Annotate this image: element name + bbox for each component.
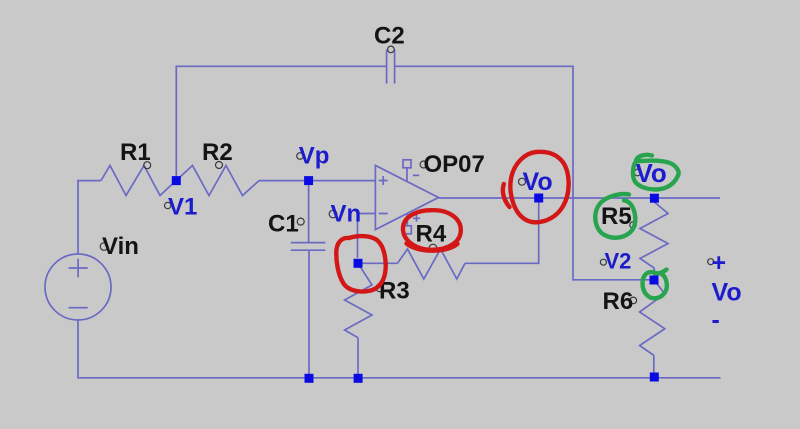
wire: V1 up and over to C2 [176, 66, 386, 180]
svg-text:Vin: Vin [102, 233, 139, 260]
node gnd C1 [305, 374, 314, 383]
svg-text:R1: R1 [120, 139, 151, 166]
svg-text:+: + [712, 249, 727, 277]
node V2 [650, 276, 659, 285]
green circle around R5 [595, 194, 635, 238]
wire: Vin top to R1 [78, 181, 101, 254]
junction nodes [172, 176, 659, 383]
op-amp power pin top [403, 160, 411, 168]
resistor R1 [101, 166, 176, 196]
svg-text:R5: R5 [601, 203, 632, 230]
voltage source Vin [45, 254, 111, 320]
capacitor C2 [387, 50, 395, 84]
svg-text:C2: C2 [374, 23, 405, 50]
wire: C1 to ground rail [308, 250, 310, 378]
wire: Vin bottom + ground rail [78, 320, 721, 378]
resistor R4 [398, 249, 466, 279]
green circle around Vo right [636, 155, 652, 161]
svg-text:C1: C1 [268, 211, 299, 238]
wire: inverting input to Vn [358, 214, 376, 259]
svg-text:Vo: Vo [712, 278, 742, 306]
resistor R5 [640, 198, 668, 268]
svg-text:Vn: Vn [331, 201, 362, 228]
wire: C2 right, down, to V2 [395, 66, 650, 279]
op-amp U1 triangle [375, 165, 438, 229]
wire: Vp down to C1 [308, 181, 310, 243]
wire: R6 to ground rail [653, 355, 655, 378]
wire: R4 to Vn node [358, 262, 398, 264]
svg-text:Vo: Vo [523, 168, 553, 196]
op-amp power pin bottom [403, 226, 411, 234]
svg-text:R2: R2 [202, 139, 233, 166]
wire: R5 to V2 node [653, 268, 655, 280]
green circle around V2 node [643, 270, 667, 299]
svg-text:V2: V2 [605, 249, 632, 274]
resistor R3 [345, 263, 372, 337]
svg-text:OP07: OP07 [424, 151, 485, 178]
svg-text:R4: R4 [416, 221, 447, 248]
node gnd R6 [650, 373, 659, 382]
label handle circles [100, 46, 714, 304]
red circle around Vn node [336, 236, 385, 291]
node Vo out [534, 194, 543, 203]
node Vo right [650, 194, 659, 203]
svg-text:R6: R6 [603, 288, 634, 315]
capacitor C1 [291, 243, 326, 251]
red circle around R4 [403, 210, 461, 250]
node Vp [304, 176, 313, 185]
node Vn [354, 259, 363, 268]
wire: op-amp output [439, 197, 721, 199]
wire: R2 to Vp to op-amp + [259, 180, 375, 182]
green pen annotations [595, 155, 678, 298]
wire: Vo down to R4 [465, 198, 539, 263]
red circle around Vo output [510, 152, 568, 222]
svg-text:-: - [712, 306, 720, 334]
wire: R3 to ground rail [357, 338, 359, 378]
resistor R6 [640, 280, 665, 355]
resistor R2 [176, 166, 259, 196]
red pen annotations [336, 152, 568, 292]
node gnd R3 [354, 374, 363, 383]
svg-text:V1: V1 [168, 194, 197, 221]
node V1 [172, 176, 181, 185]
svg-text:Vp: Vp [299, 143, 330, 170]
